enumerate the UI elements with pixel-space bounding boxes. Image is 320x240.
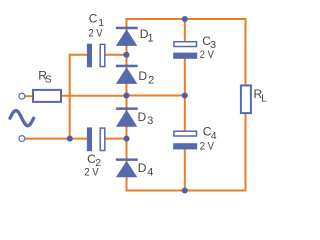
capacitor C4 <box>173 131 197 149</box>
diode D4 <box>116 158 138 177</box>
svg-text:C: C <box>89 12 98 26</box>
wire C2 to D3-D4 node <box>105 138 127 140</box>
wire top rail <box>127 18 246 20</box>
wire C1 to D1-D2 node <box>105 54 127 56</box>
svg-text:3: 3 <box>147 115 153 127</box>
svg-text:2 V: 2 V <box>84 167 99 179</box>
wire left vertical branch C1-C2 <box>69 55 71 139</box>
node bottom rail C4 <box>182 187 188 193</box>
svg-text:1: 1 <box>148 32 154 44</box>
svg-text:2 V: 2 V <box>200 141 215 153</box>
svg-text:S: S <box>45 75 52 86</box>
resistor RS <box>33 90 61 102</box>
wire mid rail <box>127 95 185 97</box>
node top rail C3 <box>182 16 188 22</box>
svg-text:2: 2 <box>148 75 154 87</box>
svg-text:L: L <box>261 94 267 105</box>
wire C3 branch upper <box>184 19 186 43</box>
svg-text:D: D <box>138 110 147 124</box>
svg-text:D: D <box>138 69 147 83</box>
diode D1 <box>116 27 138 46</box>
AC source sine <box>10 111 34 126</box>
wire C4 branch upper <box>184 96 186 134</box>
svg-text:2 V: 2 V <box>88 27 103 39</box>
wire C4 branch lower <box>184 147 186 191</box>
wire source top to RS <box>25 95 33 97</box>
svg-text:2 V: 2 V <box>200 49 215 61</box>
node C2-diode junction <box>123 136 129 142</box>
svg-text:4: 4 <box>147 166 153 178</box>
node source-C1-C2 branch <box>67 136 73 142</box>
wire right branch (RL bottom) <box>245 113 247 191</box>
capacitor C2 <box>87 127 105 151</box>
wire source bottom rail to C2 <box>25 138 88 140</box>
wire diode column <box>126 18 128 192</box>
terminal top <box>19 93 25 99</box>
svg-text:D: D <box>138 161 147 175</box>
resistor RL <box>241 85 251 113</box>
wire elbow to C1 <box>69 54 88 56</box>
capacitor C3 <box>173 42 197 59</box>
wire RS to diode midpoint <box>61 95 127 97</box>
wire C3 branch lower to mid rail <box>184 57 186 96</box>
node D2-D3 midpoint <box>123 92 129 98</box>
diode D2 <box>116 65 138 84</box>
wire right branch (RL top) <box>245 18 247 85</box>
diode D3 <box>116 107 138 126</box>
node C1-diode junction <box>123 52 129 58</box>
wire bottom rail <box>127 190 247 192</box>
terminal bottom <box>19 136 25 142</box>
capacitor C1 <box>87 44 105 68</box>
node mid rail C3-C4 <box>182 92 188 98</box>
